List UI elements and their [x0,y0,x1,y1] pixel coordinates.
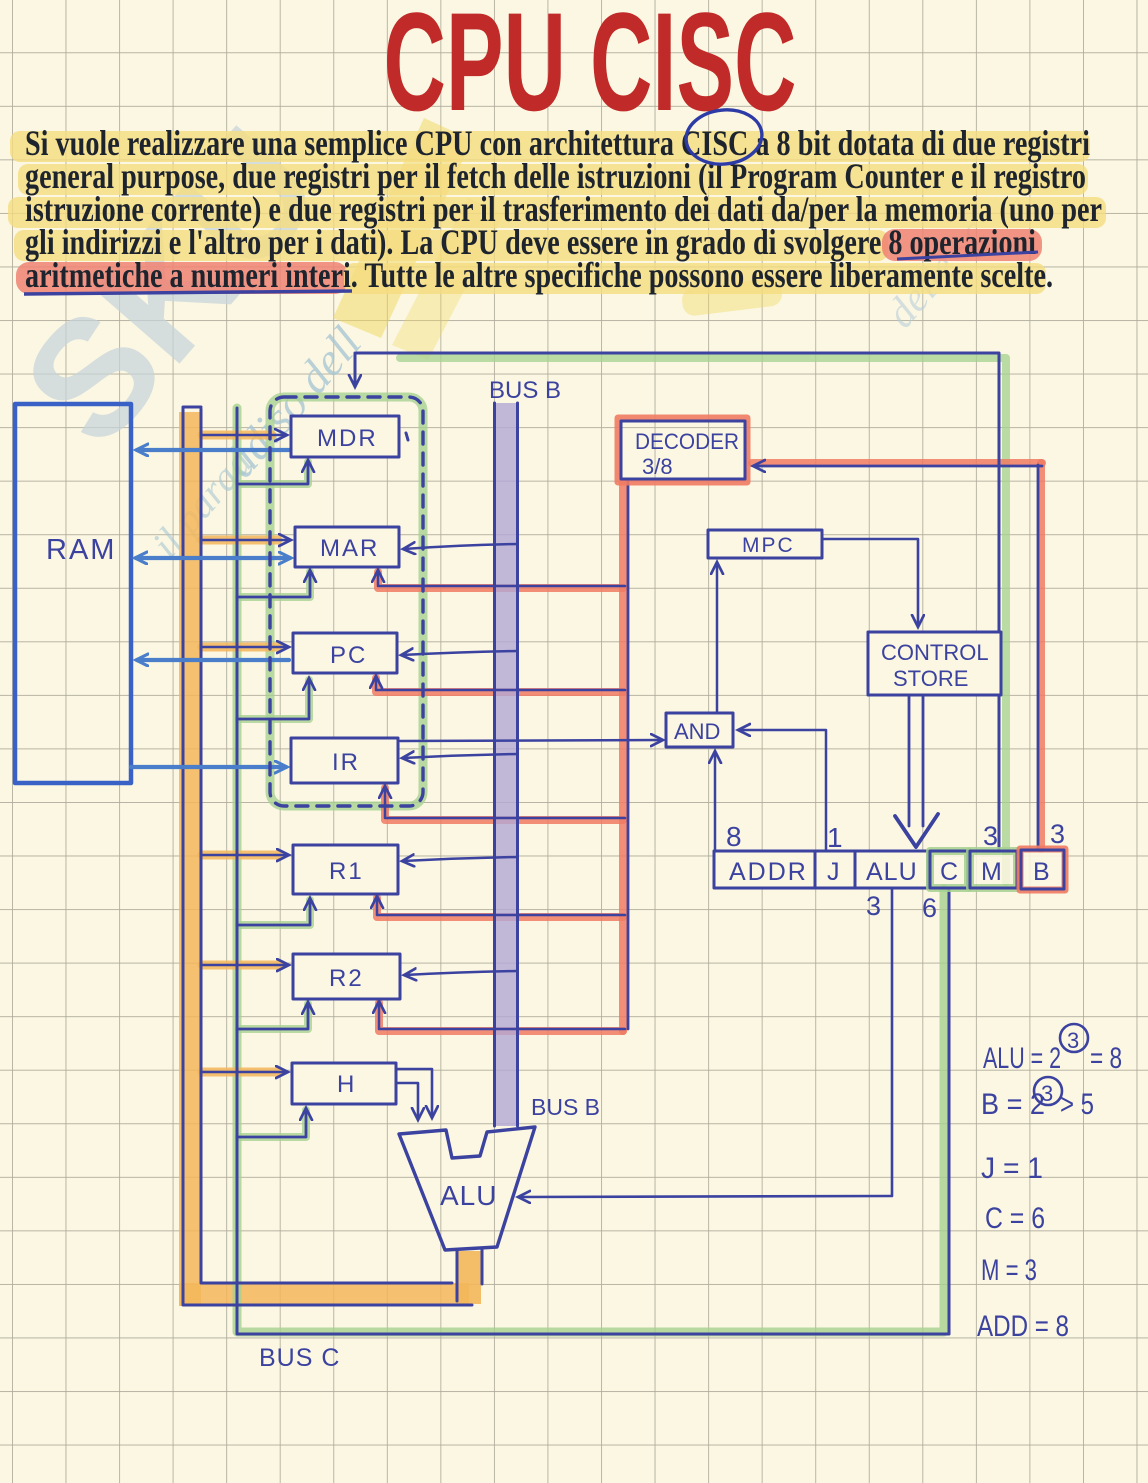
arrow busB to R1 [403,857,517,861]
BUS C ink inner line [201,409,452,1283]
arrow busC to R1 [202,854,288,857]
wire AND to MPC [716,563,719,713]
BUS C orange band horizontal [179,1283,469,1306]
svg-text:3: 3 [1041,1081,1053,1106]
svg-text:1: 1 [827,822,843,853]
AND box [666,713,733,747]
wire M green highlight [400,358,1006,882]
svg-text:RAM: RAM [46,534,116,566]
red highlight decoder input wire [752,459,1042,467]
BUS B edge line left [493,403,496,1126]
svg-text:3: 3 [866,891,881,921]
red stub PC ink [376,677,625,690]
decoder input wire ink [754,465,1042,468]
red stub IR ink [385,787,625,818]
svg-text:R1: R1 [329,858,364,885]
register R1 [293,845,398,894]
svg-text:3/8: 3/8 [642,454,673,479]
wire C-enable green highlight [237,408,944,1332]
wire J field to AND [739,730,826,851]
orange stub R1 [202,851,278,860]
svg-text:= 8: = 8 [1090,1042,1122,1075]
svg-text:3: 3 [1067,1028,1079,1053]
svg-text:J = 1: J = 1 [981,1152,1043,1185]
arrow busC to H [202,1071,287,1074]
red stub R2 ink [379,1002,625,1029]
svg-text:AND: AND [674,719,720,744]
svg-text:M: M [981,858,1002,886]
arrow busC to PC [202,646,288,649]
svg-text:MPC: MPC [742,534,795,557]
wire H to ALU a [396,1069,432,1117]
arrow busB to R2 [405,971,517,975]
watermark yellow band A [333,118,472,338]
MDR tick [406,433,408,440]
MPC box [708,530,822,558]
wire M ink [355,353,999,851]
control store to MIR double wire [908,695,911,826]
red highlight decoder output vertical [619,482,627,1031]
underline 8 operazioni [897,252,1038,259]
svg-text:H: H [337,1071,356,1098]
paragraph text [24,106,1102,295]
MIR field J [815,851,855,888]
hook PC green [239,680,309,719]
red stub MAR [378,572,623,588]
register IR [291,738,398,783]
orange stub H [202,1068,280,1077]
svg-text:BUS C: BUS C [259,1344,340,1372]
svg-text:R2: R2 [329,965,364,992]
svg-text:BUS B: BUS B [531,1094,600,1120]
svg-text:J: J [827,858,840,886]
fetch-group dashed box [270,397,423,806]
orange stub MAR [202,536,278,545]
BUS B purple band [496,403,517,1126]
decoder 3/8 box [621,421,745,479]
wire H to ALU b [396,1083,418,1119]
register MAR [295,527,399,567]
svg-text:ADD = 8: ADD = 8 [977,1310,1069,1343]
svg-text:ADDR: ADDR [729,858,808,886]
RAM-MAR line [136,556,290,560]
svg-text:6: 6 [922,893,937,923]
wire IR to AND [400,740,662,741]
orange stub PC [202,643,278,652]
BUS C orange band vertical [179,412,201,1306]
decoder to B-field vertical ink [1037,465,1040,849]
MIR field M green highlight [970,851,1017,888]
underline aritmetiche [24,291,352,294]
svg-text:DECODER: DECODER [635,429,739,454]
hook R1 ink [239,899,310,925]
wire C-enable ink [237,408,949,1334]
hook H green [239,1110,306,1137]
red stub R2 [379,1003,623,1031]
hook MAR ink [239,571,310,597]
register R2 [293,954,400,999]
red stub PC [376,678,623,692]
register MDR [291,416,399,457]
hook R2 ink [239,1003,308,1029]
svg-text:8: 8 [726,821,742,852]
wire ALU-field to ALU [519,888,892,1197]
ALU output spout left [456,1250,459,1301]
svg-text:3: 3 [1050,819,1065,849]
hook MDR ink [239,461,308,484]
wire MPC to control store [822,539,918,626]
red stub R1 ink [377,897,625,915]
svg-text:C: C [940,858,958,886]
ALU output spout orange [457,1251,481,1304]
arrow busC to MDR [202,434,286,437]
decoder output vertical ink [627,481,630,1029]
hook R1 green [239,900,310,925]
arrow busB to IR [403,754,517,758]
RAM box [15,404,131,783]
svg-text:CPU CISC: CPU CISC [384,0,797,140]
MIR field C [930,851,968,888]
MIR field M [970,851,1017,888]
svg-text:ALU = 2: ALU = 2 [983,1042,1061,1075]
svg-text:CONTROL: CONTROL [881,640,989,665]
fetch-group dashed box green highlight [270,397,423,806]
ellipse around CISC [683,106,764,168]
svg-text:PC: PC [330,642,367,669]
wire ADDR field to AND [714,752,717,851]
hook MDR green [239,462,308,484]
hook R2 green [239,1004,308,1029]
watermark group [0,94,996,566]
svg-text:aritmetiche a numeri interi. T: aritmetiche a numeri interi. Tutte le al… [25,255,1053,295]
BUS B edge line right [516,403,519,1126]
orange stub MDR [202,431,272,440]
MIR field ALU [855,851,928,888]
paragraph highlights [8,131,1106,294]
svg-text:IR: IR [332,749,360,776]
svg-text:B: B [1033,858,1050,886]
red highlight vertical to B field [1037,463,1045,849]
control store big arrowhead [895,814,938,847]
arrow busB to PC [402,651,517,655]
red stub IR [385,788,623,820]
control store box [868,632,1001,695]
svg-text:MAR: MAR [320,535,379,562]
decoder 3/8 box red highlight [618,418,747,482]
BUS C ink outer line [183,407,472,1305]
orange stub R2 [202,961,280,970]
svg-text:> 5: > 5 [1060,1088,1094,1121]
MIR field B red highlight [1020,849,1065,890]
MIR field C green highlight [930,851,968,888]
svg-text:ALU: ALU [866,858,918,886]
MIR field ADDR [714,851,815,888]
arrow busC to R2 [202,964,288,967]
red stub MAR ink [378,571,625,586]
arrow busC to MAR [202,539,290,542]
svg-text:3: 3 [983,821,998,851]
svg-text:STORE: STORE [893,666,968,691]
RAM-PC line [137,658,289,662]
register H [292,1063,396,1104]
svg-text:C = 6: C = 6 [985,1202,1045,1235]
red stub R1 [377,898,623,917]
MIR field B [1021,850,1064,889]
ALU trapezoid [399,1127,535,1250]
hook H ink [239,1109,306,1137]
svg-text:M = 3: M = 3 [981,1254,1037,1287]
arrow busB to MAR [404,544,517,549]
svg-text:MDR: MDR [317,425,378,452]
svg-text:ALU: ALU [440,1180,497,1211]
ALU output spout right [481,1249,484,1284]
watermark yellow band B [392,198,504,360]
watermark yellow blob [681,277,784,317]
hook PC ink [239,679,309,719]
svg-text:BUS B: BUS B [489,377,561,404]
hook MAR green [239,572,310,597]
register PC [293,633,397,673]
RAM-MDR line [137,448,289,452]
RAM-IR line [131,765,286,769]
